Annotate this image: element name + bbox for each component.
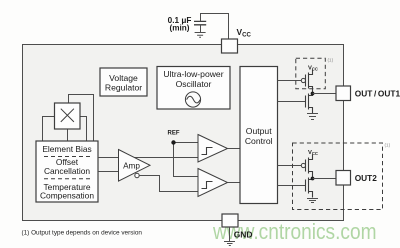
wire drain junction to OUT2 pin	[313, 178, 337, 180]
transistor Q2 (NMOS)	[306, 94, 313, 114]
ground under Q4	[307, 199, 318, 203]
ground under capacitor	[195, 25, 206, 37]
ground under Q2	[307, 114, 318, 120]
svg-text:VCC: VCC	[308, 150, 318, 156]
voltage regulator block	[100, 68, 147, 96]
svg-text:REF: REF	[168, 130, 180, 136]
IC boundary box	[23, 45, 344, 221]
transistor Q1 (PMOS)	[306, 70, 313, 94]
ground symbol under GND pin	[224, 227, 235, 246]
svg-text:Oscillator: Oscillator	[176, 79, 212, 89]
wire REF to comparator 1	[174, 142, 199, 144]
VCC pin	[222, 39, 238, 53]
oscillator block	[157, 67, 230, 110]
wire bias to amp and comparator 1 lower input	[98, 157, 198, 159]
PMOS Q1 gate bubble	[301, 78, 305, 82]
svg-text:Element Bias: Element Bias	[42, 144, 91, 154]
dashed option box lower output stage	[293, 143, 383, 210]
output control block	[240, 67, 278, 204]
wire amp bubble to comparator 2 lower input	[139, 176, 198, 192]
node junction Q3/Q4 drain	[311, 177, 315, 181]
hall element right terminal wire	[80, 117, 87, 142]
dashed option box upper FET	[296, 58, 326, 89]
oscillator sine symbol	[185, 92, 200, 107]
svg-text:Output: Output	[246, 126, 272, 136]
svg-text:GND: GND	[234, 230, 253, 240]
svg-text:Ultra-low-power: Ultra-low-power	[163, 69, 223, 79]
wire cap to VCC pin	[201, 14, 229, 40]
comparator 2 hysteresis symbol	[202, 182, 213, 189]
OUT2 pin	[336, 171, 351, 186]
capacitor C plates	[194, 21, 206, 24]
wire output control to PMOS Q3 gate	[278, 165, 302, 167]
svg-text:OUT / OUT1: OUT / OUT1	[355, 88, 400, 98]
svg-text:Compensation: Compensation	[40, 191, 94, 201]
hall element (X box)	[55, 103, 81, 129]
element bias / offset cancellation / temperature compensation block	[36, 141, 98, 202]
comparator 1	[198, 135, 228, 163]
wire REF to comparator 2	[174, 143, 199, 177]
hall element left terminal wire	[43, 117, 55, 142]
transistor Q4 (NMOS)	[306, 178, 313, 198]
svg-text:Regulator: Regulator	[105, 83, 142, 93]
wire output control to PMOS Q1 gate	[278, 80, 302, 82]
amp offset output bubble	[135, 173, 139, 177]
PMOS Q3 gate bubble	[301, 163, 305, 167]
svg-text:Amp: Amp	[123, 161, 140, 170]
svg-text:(1) Output type depends on dev: (1) Output type depends on device versio…	[22, 230, 143, 237]
comparator 2	[198, 169, 228, 197]
hall element bottom terminal wire	[67, 129, 69, 141]
comparator 1 hysteresis symbol	[202, 148, 213, 155]
wire output control to NMOS Q2 gate	[278, 101, 306, 103]
op-amp Amp	[119, 150, 151, 182]
transistor Q3 (PMOS)	[306, 155, 313, 179]
svg-text:Control: Control	[245, 136, 273, 146]
junction REF	[171, 140, 175, 144]
OUT/OUT1 pin	[336, 86, 351, 101]
wire bias to amp lower input	[98, 171, 118, 173]
hall element top terminal wire	[69, 95, 94, 142]
svg-text:VCC: VCC	[308, 65, 318, 71]
wire comparator 2 to output control	[228, 182, 241, 184]
svg-text:(1): (1)	[385, 143, 391, 148]
node junction Q1/Q2 drain	[311, 92, 315, 96]
wire output control to NMOS Q4 gate	[278, 185, 306, 187]
svg-text:Voltage: Voltage	[109, 73, 138, 83]
wire comparator 1 to output control	[228, 148, 241, 150]
svg-text:OUT2: OUT2	[355, 173, 378, 183]
svg-text:(min): (min)	[169, 24, 189, 33]
GND pin	[222, 214, 238, 227]
wire drain junction to OUT1 pin	[313, 93, 337, 95]
svg-text:Cancellation: Cancellation	[44, 166, 90, 176]
capacitor C (0.1 uF) value label	[168, 16, 192, 33]
svg-text:(1): (1)	[328, 58, 334, 63]
